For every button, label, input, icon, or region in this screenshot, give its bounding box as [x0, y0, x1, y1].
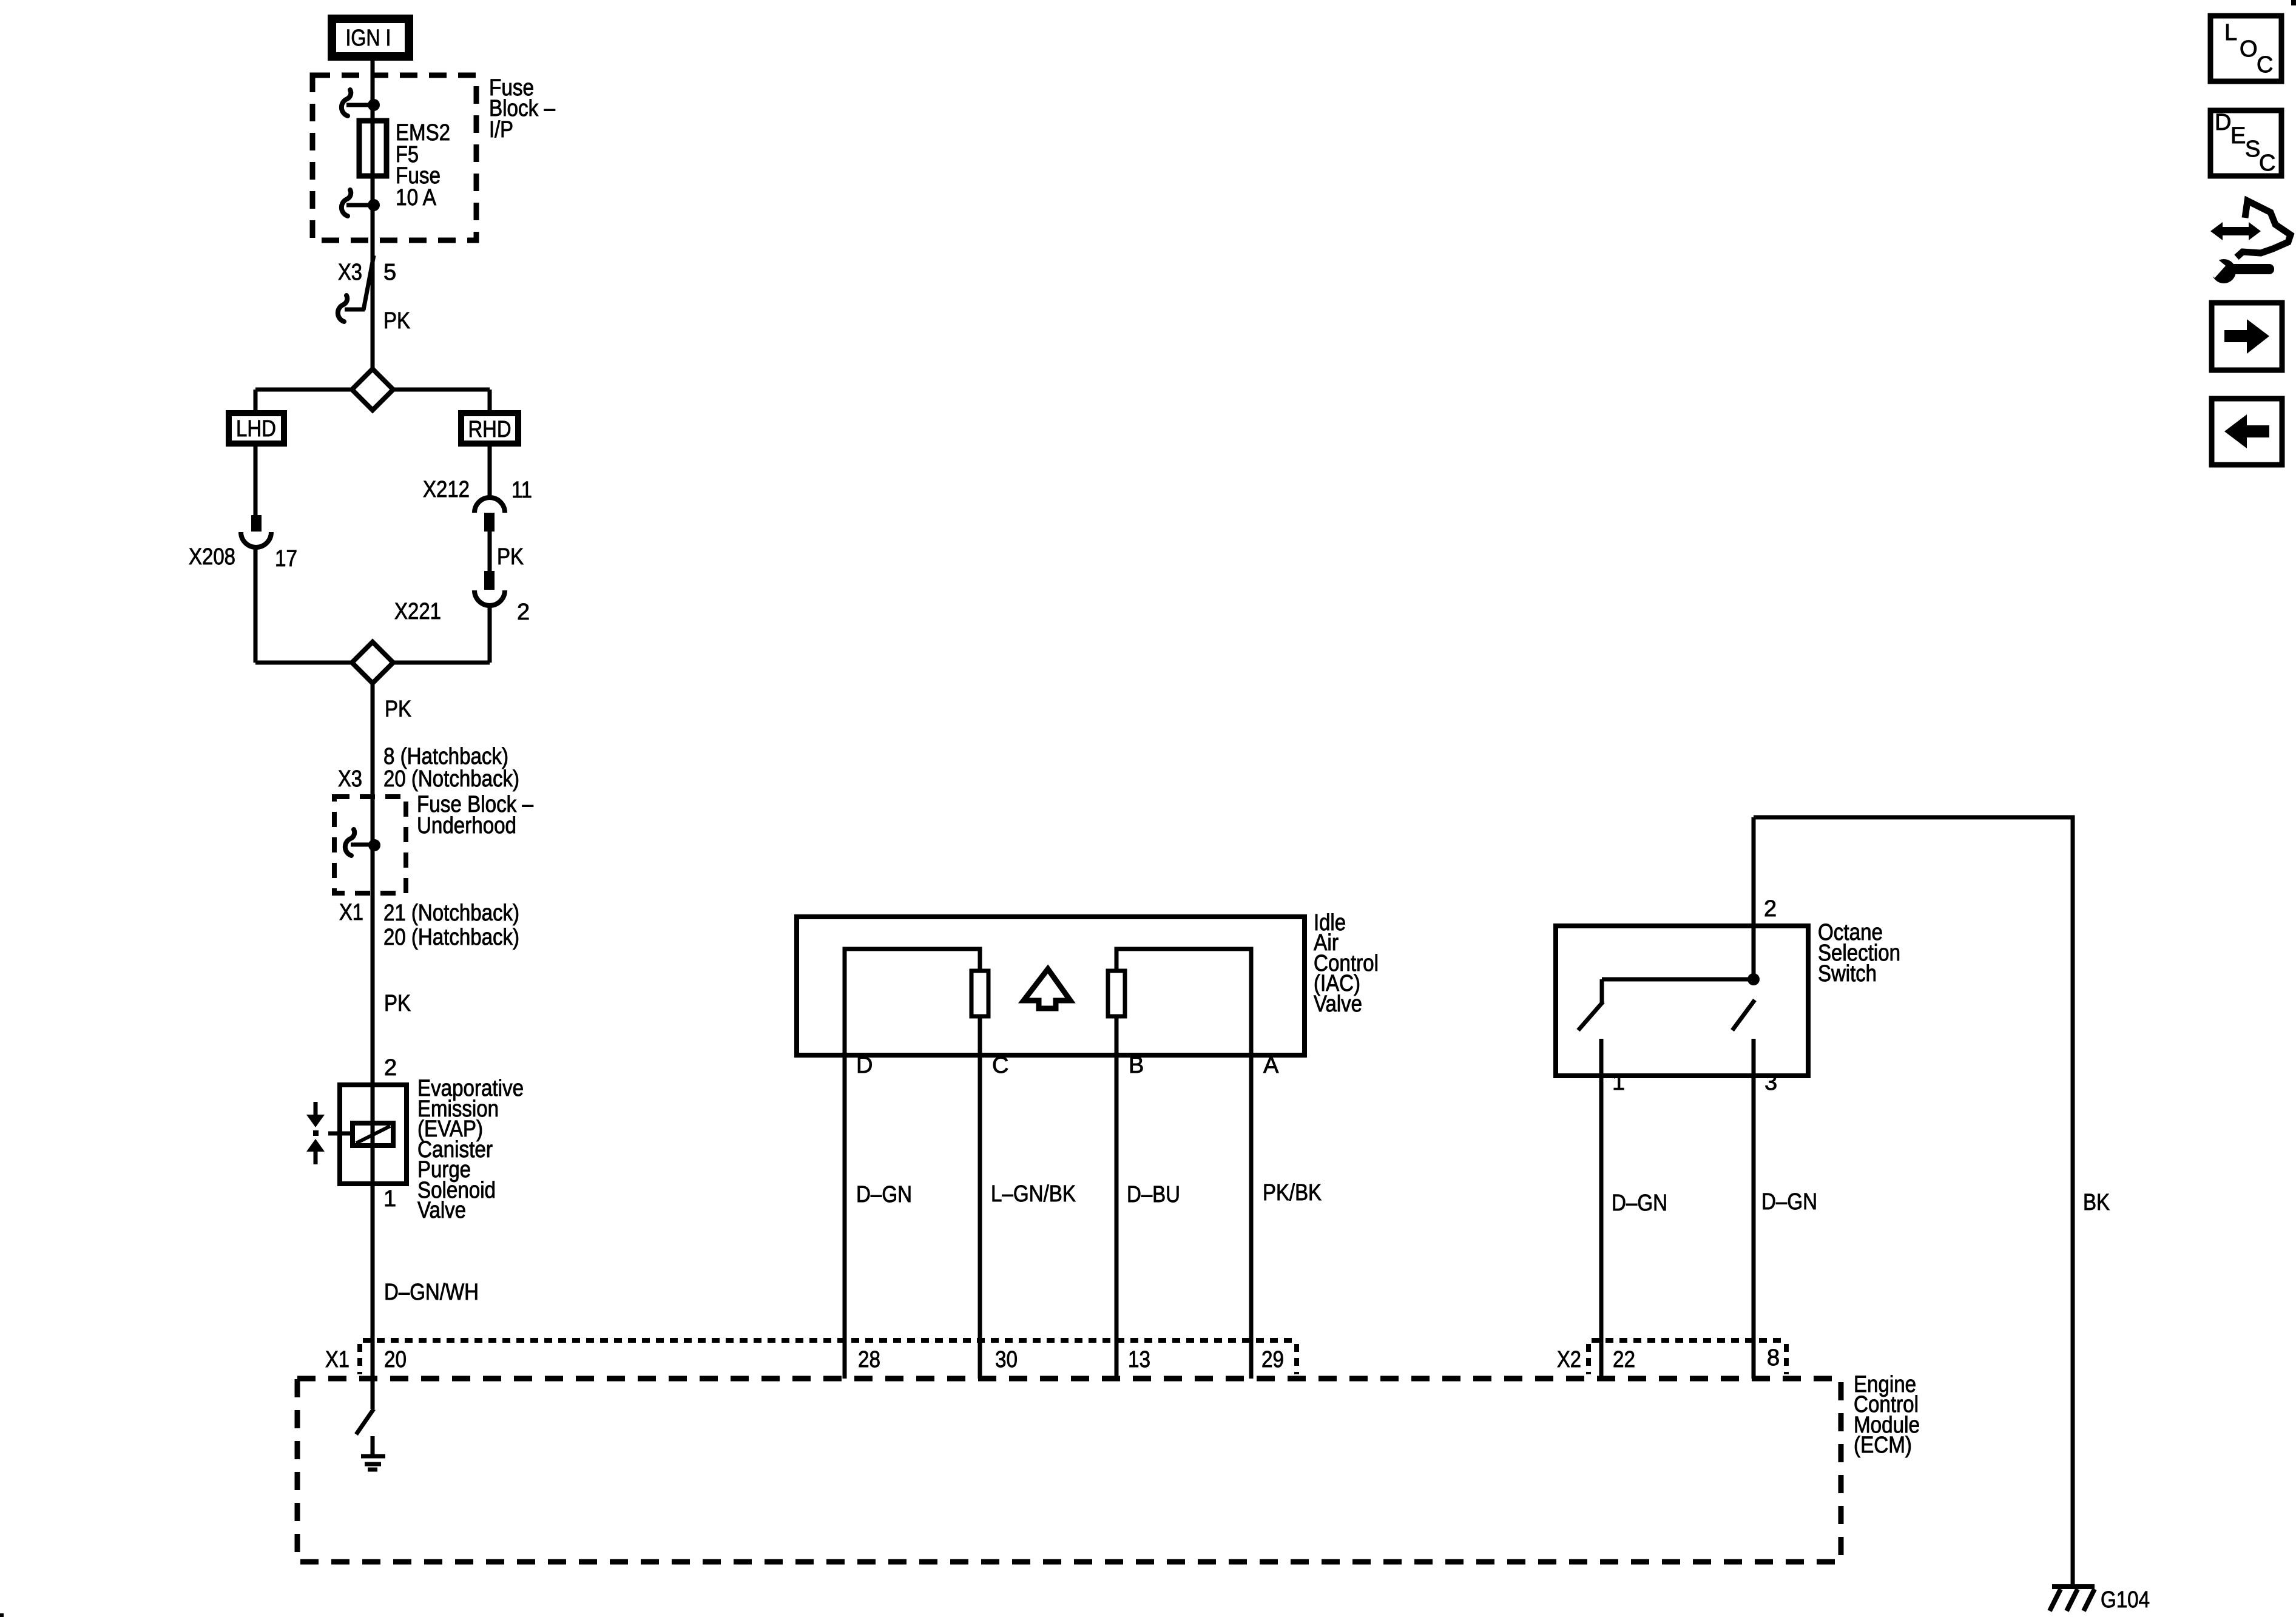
connector X212 pin 11	[474, 498, 505, 532]
svg-text:10 A: 10 A	[396, 185, 437, 211]
svg-text:20 (Hatchback): 20 (Hatchback)	[383, 925, 519, 950]
svg-text:RHD: RHD	[468, 417, 512, 442]
svg-text:30: 30	[995, 1347, 1018, 1372]
option box LHD	[229, 413, 284, 444]
svg-text:11: 11	[512, 478, 532, 503]
label X208 17	[189, 544, 297, 572]
svg-text:B: B	[1129, 1053, 1144, 1078]
svg-text:X208: X208	[189, 544, 235, 570]
wire IGN I feed down to splice S1	[371, 61, 375, 370]
wire splice S2 horizontal branch	[255, 661, 490, 665]
label Octane Selection Switch	[1818, 920, 1900, 987]
ground G104	[2050, 1587, 2095, 1611]
connector X3 pin 5 terminal	[338, 255, 374, 322]
power symbol IGN I	[332, 19, 409, 56]
page mark top right	[2291, 0, 2296, 5]
svg-text:29: 29	[1261, 1347, 1284, 1372]
svg-text:X2: X2	[1557, 1347, 1581, 1372]
svg-text:PK: PK	[383, 308, 410, 334]
svg-text:2: 2	[517, 599, 530, 625]
solenoid coil of EVAP valve	[353, 1123, 393, 1146]
svg-text:O: O	[2240, 36, 2258, 62]
svg-text:S: S	[2245, 137, 2260, 162]
svg-text:D–GN: D–GN	[856, 1182, 912, 1207]
label Engine Control Module (ECM)	[1854, 1372, 1920, 1458]
svg-text:E: E	[2230, 123, 2246, 149]
wire D-GN from octane 3 to ECM 8	[1752, 1076, 1756, 1379]
IAC valve box	[797, 917, 1305, 1055]
splice diamond S1	[352, 369, 393, 410]
label Fuse Block Underhood	[417, 792, 534, 839]
ECM connector X1 dotted line	[363, 1338, 1297, 1343]
label EMS2 F5 Fuse 10 A	[396, 120, 450, 211]
ECM dashed box	[297, 1379, 1841, 1562]
label Evaporative Emission (EVAP) Canister Purge Solenoid Valve	[417, 1076, 524, 1223]
svg-text:20 (Notchback): 20 (Notchback)	[383, 766, 519, 792]
svg-text:D–GN: D–GN	[1612, 1190, 1667, 1216]
wire D-BU from IAC B to ECM 13	[1115, 1055, 1119, 1379]
svg-text:X3: X3	[338, 766, 362, 792]
octane switch contact 1	[1578, 979, 1603, 1076]
wire LHD to connector X208	[254, 447, 258, 516]
label Idle Air Control (IAC) Valve	[1314, 910, 1379, 1017]
splice diamond S2	[352, 642, 393, 683]
switch blade to ground inside ECM	[356, 1409, 374, 1434]
svg-text:5: 5	[383, 260, 396, 285]
wire branch down to RHD	[488, 390, 492, 413]
label Fuse Block I/P	[489, 75, 556, 143]
octane selection switch box	[1556, 926, 1808, 1076]
EVAP canister purge solenoid valve box	[340, 1085, 407, 1184]
svg-text:PK: PK	[385, 697, 411, 722]
svg-text:13: 13	[1128, 1347, 1150, 1372]
terminal clip at fuse F5 bottom	[342, 190, 380, 216]
svg-text:C: C	[2259, 150, 2275, 176]
wire L-GN/BK from IAC C to ECM 30	[978, 1055, 982, 1379]
svg-text:17: 17	[275, 546, 297, 572]
svg-text:C: C	[2257, 52, 2273, 78]
svg-text:D: D	[2215, 110, 2231, 135]
svg-text:Underhood: Underhood	[417, 813, 516, 839]
svg-text:L: L	[2224, 20, 2237, 46]
wire X208 to splice S2	[254, 547, 258, 663]
sidebar button back arrow	[2212, 399, 2282, 465]
page mark bottom left	[0, 1613, 4, 1617]
svg-text:Valve: Valve	[1314, 991, 1362, 1017]
svg-text:8: 8	[1767, 1345, 1780, 1371]
svg-text:PK: PK	[497, 544, 524, 570]
svg-text:G104: G104	[2101, 1587, 2150, 1613]
svg-text:D–GN: D–GN	[1761, 1189, 1817, 1215]
ECM connector X2 dotted line	[1592, 1338, 1786, 1343]
wire pin 2 feed into octane switch	[1752, 817, 1756, 979]
svg-text:L–GN/BK: L–GN/BK	[991, 1181, 1076, 1207]
svg-text:A: A	[1263, 1053, 1279, 1078]
fuse block I/P dashed box	[312, 75, 476, 240]
svg-text:PK/BK: PK/BK	[1263, 1180, 1322, 1206]
IAC pintle arrow symbol	[1024, 969, 1070, 1008]
valve flow symbol of EVAP valve	[306, 1102, 353, 1164]
octane switch common bar	[1602, 977, 1754, 982]
option box RHD	[461, 413, 518, 444]
fuse block underhood dashed box	[334, 797, 406, 893]
ground symbol inside ECM	[361, 1436, 385, 1470]
wire branch down to LHD	[254, 390, 258, 413]
connector separator right of 29	[1294, 1344, 1299, 1374]
node junction at pin 2	[1747, 973, 1760, 985]
svg-text:IGN I: IGN I	[346, 25, 391, 51]
wire PK/BK from IAC A to ECM 29	[1249, 1055, 1254, 1379]
connector separator right of 8	[1784, 1344, 1789, 1374]
sidebar button DESC	[2210, 110, 2281, 176]
svg-text:21 (Notchback): 21 (Notchback)	[383, 900, 519, 926]
label X221 2	[394, 599, 530, 625]
svg-text:X3: X3	[338, 260, 362, 285]
wire PK between X212 and X221	[488, 532, 492, 571]
svg-text:X1: X1	[325, 1347, 349, 1372]
octane switch contact 3	[1732, 1000, 1755, 1076]
wire D-GN from IAC D to ECM 28	[843, 1055, 847, 1379]
svg-text:20: 20	[384, 1347, 407, 1372]
IAC coil winding B-A	[1108, 949, 1251, 1055]
svg-text:(ECM): (ECM)	[1854, 1433, 1912, 1458]
label X3 5	[338, 260, 396, 285]
svg-text:1: 1	[1612, 1070, 1625, 1095]
connector X221 pin 2	[474, 571, 505, 606]
svg-text:D–BU: D–BU	[1127, 1182, 1180, 1207]
svg-text:X221: X221	[394, 599, 441, 624]
svg-text:BK: BK	[2083, 1190, 2110, 1215]
svg-text:2: 2	[384, 1055, 397, 1081]
wire D-GN from octane 1 to ECM 22	[1599, 1076, 1604, 1379]
sidebar button LOC	[2210, 16, 2281, 81]
svg-text:I/P: I/P	[489, 117, 513, 143]
connector X1 separator	[357, 1344, 362, 1374]
terminal clip at fuse F5 top	[342, 90, 380, 116]
sidebar button next arrow	[2212, 303, 2282, 370]
svg-text:X212: X212	[423, 477, 470, 502]
svg-text:D–GN/WH: D–GN/WH	[384, 1280, 479, 1305]
svg-text:LHD: LHD	[236, 416, 276, 442]
label X212 11	[423, 477, 532, 503]
svg-text:3: 3	[1764, 1070, 1777, 1095]
terminal clip underhood	[345, 829, 380, 856]
IAC coil winding D-C	[845, 949, 988, 1055]
svg-text:D: D	[856, 1053, 873, 1078]
svg-text:28: 28	[858, 1347, 880, 1372]
wire RHD to connector X212	[488, 447, 492, 498]
sidebar adjust icon wrench	[2200, 254, 2274, 283]
wire X221 to splice S2	[488, 605, 492, 663]
svg-text:2: 2	[1764, 896, 1777, 922]
fuse F5	[359, 121, 387, 176]
wire BK top run	[1754, 817, 2073, 1585]
wire splice S2 down to ECM ground switch	[371, 683, 375, 1409]
svg-text:8 (Hatchback): 8 (Hatchback)	[383, 744, 508, 769]
svg-text:Valve: Valve	[417, 1198, 466, 1223]
svg-text:X1: X1	[339, 900, 363, 925]
svg-text:22: 22	[1613, 1347, 1635, 1372]
svg-text:Switch: Switch	[1818, 961, 1877, 987]
sidebar adjust icon panel outline	[2237, 201, 2291, 257]
svg-text:PK: PK	[384, 991, 411, 1016]
svg-text:1: 1	[383, 1186, 396, 1212]
svg-text:C: C	[992, 1053, 1008, 1078]
wire splice S1 horizontal branch	[255, 388, 490, 392]
connector X2 separator	[1586, 1344, 1591, 1374]
connector X208 pin 17	[241, 515, 271, 547]
sidebar adjust icon double arrow	[2210, 222, 2261, 240]
